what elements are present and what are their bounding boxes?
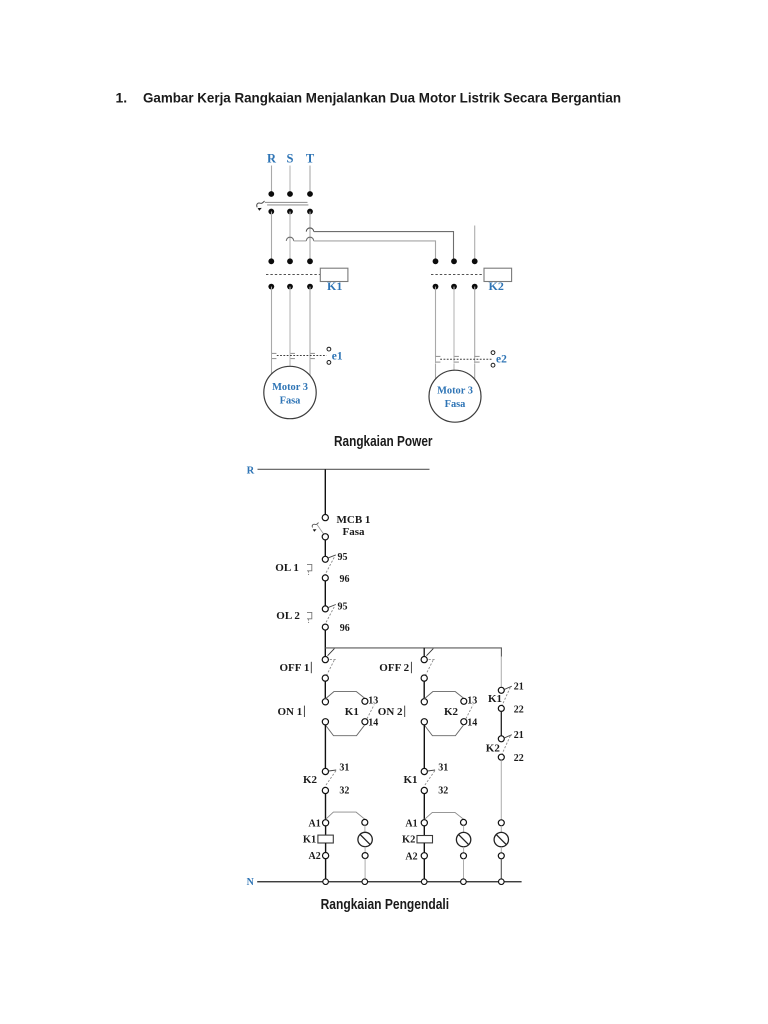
lamp2 upper terminal (461, 819, 467, 825)
wire coil K1 to A2 (325, 843, 327, 853)
wire ON1 parallel branch lower (325, 725, 365, 736)
svg-text:K2: K2 (489, 279, 504, 293)
interlock K2 NC terminal 32 (322, 787, 328, 793)
OFF1 label (280, 662, 312, 674)
overload e1 auxiliary terminals (327, 347, 331, 364)
OL2 contact tick (328, 605, 335, 608)
wire tap A to K2 with hop over T (306, 228, 453, 259)
wire OFF1 to ON1 (324, 681, 326, 699)
svg-text:S: S (287, 152, 294, 166)
svg-text:OL 2: OL 2 (276, 610, 300, 622)
lamp1 lower terminal (362, 853, 368, 859)
wire lamp3 bottom (500, 847, 502, 853)
MCB trip squiggle and arrow (257, 201, 265, 211)
OL2 contact diagonal (325, 607, 334, 625)
aux contact K1 diagonal (367, 705, 374, 719)
svg-text:Fasa: Fasa (280, 396, 302, 407)
svg-text:K2: K2 (444, 706, 459, 718)
svg-text:Motor 3: Motor 3 (272, 382, 308, 393)
junction dot S above MCB (287, 191, 293, 197)
svg-text:R: R (267, 152, 277, 166)
svg-text:31: 31 (438, 762, 448, 773)
K2 NC contact diagonal (325, 771, 336, 787)
svg-text:e1: e1 (332, 350, 343, 362)
svg-text:K1: K1 (404, 774, 418, 786)
lamp 2 (456, 832, 470, 846)
wire OFF2 to ON2 (423, 681, 425, 699)
svg-text:N: N (247, 877, 255, 888)
N bus terminal K1 branch (323, 879, 329, 885)
svg-text:A1: A1 (405, 818, 417, 829)
N bus terminal lamp2 branch (461, 879, 467, 885)
svg-text:1.: 1. (116, 89, 128, 105)
wire MCB1 to OL1 (324, 540, 326, 556)
wire OL1 to OL2 (324, 581, 326, 606)
contactor K1 upper terminal dots (268, 258, 313, 264)
contactor K1 linkage dashed line (266, 274, 320, 276)
svg-text:OFF 2: OFF 2 (379, 662, 409, 674)
overload contact OL2 terminal 96 (322, 624, 328, 630)
MCB 1 fasa lower terminal (322, 534, 328, 540)
svg-text:MCB 1: MCB 1 (337, 514, 371, 526)
contactor K2 linkage dashed line (431, 274, 484, 276)
aux contact K2 terminal 14 (461, 719, 467, 725)
wire lamp3 to N bus (500, 859, 502, 879)
overload e1 trip dashed line (277, 355, 327, 357)
wire branch drop to OFF2 (423, 648, 425, 657)
K1 21-22 contact diagonal (502, 687, 510, 705)
svg-text:OL 1: OL 1 (275, 562, 299, 574)
svg-text:ON 2: ON 2 (378, 706, 403, 718)
contactor K1 coil box (320, 268, 348, 281)
wire R phase drop to MCB (271, 166, 273, 194)
aux contact K1 terminal 14 (362, 719, 368, 725)
pushbutton OFF1 upper terminal (322, 657, 328, 663)
contactor K2 lower terminal dots (433, 284, 478, 290)
wire A1 to coil K1 (325, 826, 327, 835)
wire K1 22 to K2 21 (500, 712, 502, 736)
svg-text:14: 14 (467, 718, 477, 729)
coil K1 terminal A1 (323, 820, 329, 826)
svg-text:Fasa: Fasa (445, 399, 467, 410)
wire K2 NC to coil K1 (325, 794, 327, 820)
svg-text:95: 95 (338, 552, 348, 563)
overload e2 auxiliary terminals (491, 351, 495, 367)
overload e2 heater elements (435, 356, 480, 363)
svg-text:R: R (247, 465, 255, 476)
K1 NC contact diagonal (424, 771, 435, 787)
wire A2 to N bus (325, 859, 327, 879)
svg-text:21: 21 (514, 681, 524, 692)
N bus terminal lamp1 branch (362, 879, 368, 885)
svg-text:96: 96 (340, 623, 350, 634)
motor M2 label (437, 386, 473, 411)
overload contact OL1 terminal 96 (322, 575, 328, 581)
svg-text:95: 95 (338, 601, 348, 612)
MCB 1 fasa switch diagonal (317, 525, 324, 535)
svg-text:Rangkaian Pengendali: Rangkaian Pengendali (321, 897, 450, 913)
contactor K1 lower terminal dots (268, 284, 313, 290)
wire lamp1 bottom (364, 847, 366, 853)
wire T phase drop to MCB (309, 166, 311, 194)
svg-text:K1: K1 (488, 693, 502, 705)
N bus terminal K2 branch (421, 879, 427, 885)
aux contact K2 terminal 13 (461, 698, 467, 704)
svg-text:A2: A2 (309, 851, 321, 862)
wire K1 to overload e1 (three phases) (272, 287, 311, 353)
interlock K2 NC (21) terminal (498, 736, 504, 742)
wire lamp2 top (463, 825, 465, 832)
svg-text:K1: K1 (303, 835, 316, 846)
svg-text:OFF 1: OFF 1 (280, 662, 310, 674)
wire S phase MCB to K1 (289, 212, 291, 259)
wire branch to OFF2 and interlock column (325, 648, 501, 657)
pushbutton ON1 lower terminal (322, 719, 328, 725)
motor M1 circle (264, 366, 316, 418)
wire T phase MCB to K1 (309, 212, 311, 259)
contactor K2 upper terminal dots (433, 258, 478, 264)
interlock K1 NC terminal 32 (421, 787, 427, 793)
svg-text:Rangkaian Power: Rangkaian Power (334, 434, 433, 450)
K1 NC contact tick (428, 770, 436, 771)
junction dot T above MCB (307, 191, 313, 197)
svg-text:22: 22 (514, 705, 524, 716)
overload contact OL1 terminal 95 (322, 556, 328, 562)
wire lamp2 to N bus (463, 859, 465, 879)
svg-text:32: 32 (438, 785, 448, 796)
wire ON1 parallel branch upper (325, 692, 365, 699)
overload e1 heater elements (271, 353, 315, 360)
svg-text:A1: A1 (309, 818, 321, 829)
svg-text:K2: K2 (303, 774, 318, 786)
lamp1 upper terminal (362, 819, 368, 825)
wire S phase drop to MCB (289, 166, 291, 194)
wire lamp1 to N bus (364, 859, 366, 879)
OFF2 contact arm (426, 660, 437, 676)
wire lamp3 top (500, 826, 502, 833)
svg-text:21: 21 (514, 730, 524, 741)
junction dot T below MCB (307, 209, 313, 215)
wire interlock column upper (500, 657, 502, 688)
wire tap B to K2 with hops over S and T (286, 237, 435, 258)
wire ON2 parallel branch lower (424, 725, 464, 736)
OL1 contact diagonal (325, 557, 334, 575)
svg-text:e2: e2 (496, 353, 507, 365)
coil K2 box (417, 836, 433, 843)
coil K1 terminal A2 (323, 853, 329, 859)
wire R bus to MCB1 (324, 469, 326, 514)
wire third K2 feeder (474, 226, 476, 259)
title heading (116, 89, 622, 105)
svg-text:A2: A2 (405, 851, 417, 862)
interlock K1 NC (21) terminal (498, 687, 504, 693)
wire ON2 to K1 interlock (423, 725, 425, 769)
svg-text:K2: K2 (486, 742, 501, 754)
svg-text:Gambar Kerja Rangkaian Menjala: Gambar Kerja Rangkaian Menjalankan Dua M… (143, 89, 621, 105)
svg-text:96: 96 (340, 574, 350, 585)
coil K1 box (318, 835, 333, 843)
OFF1 connect diagonal (328, 649, 335, 656)
wire e1 to motor 1 (272, 360, 311, 378)
K2 21 contact tick (504, 735, 511, 738)
junction dot R below MCB (268, 209, 274, 215)
motor M2 circle (429, 370, 481, 422)
overload e2 trip dashed line (440, 358, 492, 360)
wire branch to lamp 2 (424, 812, 463, 819)
wire N bus (257, 881, 521, 883)
wire OL2 to OFF1 junction (324, 630, 326, 656)
lamp3 upper terminal (498, 820, 504, 826)
interlock K1 NC (22) terminal (498, 705, 504, 711)
wire R supply bus (258, 468, 430, 470)
lamp2 lower terminal (461, 853, 467, 859)
MCB 1 label (337, 514, 371, 538)
wire lamp2 bottom (463, 847, 465, 853)
svg-text:Fasa: Fasa (343, 526, 366, 538)
K1 21 contact tick (504, 686, 511, 689)
wire A1 to coil K2 (423, 826, 425, 836)
OL2 symbol (307, 612, 312, 623)
wire R phase MCB to K1 (271, 212, 273, 259)
wire branch to lamp 1 (326, 812, 365, 819)
interlock K1 NC terminal 31 (421, 768, 427, 774)
wire coil K2 to A2 (423, 843, 425, 853)
svg-text:14: 14 (368, 718, 378, 729)
svg-text:32: 32 (339, 785, 349, 796)
coil K2 terminal A1 (421, 820, 427, 826)
MCB 3 phase breaker bars (265, 202, 309, 205)
junction dot S below MCB (287, 209, 293, 215)
svg-text:T: T (306, 152, 315, 166)
lamp3 lower terminal (498, 853, 504, 859)
pushbutton ON2 upper terminal (421, 699, 427, 705)
K2 NC contact tick (329, 770, 337, 771)
interlock K2 NC terminal 31 (322, 768, 328, 774)
OFF2 connect diagonal (427, 649, 434, 656)
aux contact K1 terminal 13 (362, 698, 368, 704)
wire ON1 to K2 interlock (324, 725, 326, 769)
contactor K2 coil box (484, 268, 512, 281)
interlock K2 NC (22) terminal (498, 754, 504, 760)
svg-text:K1: K1 (345, 706, 359, 718)
OFF2 label (379, 662, 411, 674)
pushbutton OFF1 lower terminal (322, 675, 328, 681)
lamp 1 (358, 832, 372, 846)
K2 21-22 contact diagonal (502, 736, 510, 754)
ON1 label (278, 706, 305, 718)
OL1 contact tick (328, 555, 335, 558)
wire interlock column to lamp3 (500, 760, 502, 819)
wire e2 to motor 2 (436, 363, 475, 381)
aux contact K2 diagonal (466, 705, 473, 719)
overload contact OL2 terminal 95 (322, 606, 328, 612)
wire K1 NC to coil K2 (423, 794, 425, 820)
lamp 3 (494, 832, 508, 846)
OFF1 contact arm (327, 660, 338, 676)
N bus terminal lamp3 branch (499, 879, 505, 885)
svg-text:K1: K1 (327, 279, 342, 293)
svg-text:K2: K2 (402, 835, 415, 846)
ON2 label (378, 706, 405, 718)
junction dot R above MCB (268, 191, 274, 197)
svg-text:ON 1: ON 1 (278, 706, 303, 718)
MCB 1 fasa trip squiggle (312, 523, 318, 532)
pushbutton ON2 lower terminal (421, 719, 427, 725)
OL1 symbol (307, 564, 312, 575)
motor M1 label (272, 382, 308, 407)
svg-text:31: 31 (339, 762, 349, 773)
svg-text:13: 13 (368, 696, 378, 707)
wire A2 (K2) to N bus (423, 859, 425, 879)
svg-text:22: 22 (514, 753, 524, 764)
MCB 1 fasa upper terminal (322, 515, 328, 521)
wire ON2 parallel branch upper (424, 692, 464, 699)
wire lamp1 top (364, 825, 366, 832)
pushbutton OFF2 upper terminal (421, 657, 427, 663)
pushbutton ON1 upper terminal (322, 699, 328, 705)
svg-text:Motor 3: Motor 3 (437, 386, 473, 397)
pushbutton OFF2 lower terminal (421, 675, 427, 681)
coil K2 terminal A2 (421, 853, 427, 859)
svg-text:13: 13 (467, 696, 477, 707)
wire K2 to overload e2 (436, 287, 475, 357)
